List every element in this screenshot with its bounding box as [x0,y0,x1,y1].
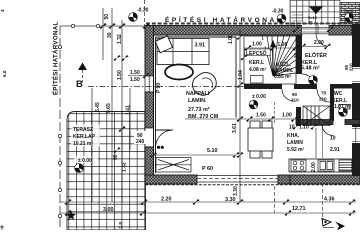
star symbol terrace [66,211,76,220]
stairs landing box [251,76,264,84]
svg-text:LÉPCSŐ: LÉPCSŐ [246,49,267,57]
svg-text:6.45: 6.45 [95,102,101,112]
svg-text:1.41: 1.41 [126,105,132,115]
svg-text:4: 4 [0,9,5,12]
WC benchmark [339,108,348,117]
svg-text:10: 10 [293,53,298,58]
WC left wall [330,84,334,121]
stairs arrow [272,46,274,76]
svg-text:-0.30: -0.30 [137,8,149,14]
north arrow [322,219,331,227]
room label TERASZ backing [71,125,100,147]
dim labels rotated left [95,14,132,172]
left exterior wall middle [145,92,154,128]
building bottom edge line [145,184,360,186]
room label NAPPALI [186,91,219,120]
window P90 [145,76,154,92]
right exterior wall [352,24,360,176]
bottom dim line 1 [60,201,356,203]
svg-text:3.61: 3.61 [232,123,238,133]
armchair tilted [155,36,172,53]
svg-text:1.04: 1.04 [238,70,244,80]
svg-text:1.08: 1.08 [278,42,288,48]
left edge fragments [0,9,7,77]
neighbour brick wall top right [340,3,360,25]
svg-text:-0.30: -0.30 [272,9,284,15]
svg-text:KÖZL.: KÖZL. [276,61,292,68]
svg-text:240: 240 [136,139,145,145]
plot boundary line horizontal with circles [60,24,146,27]
terrace door swing [156,130,174,148]
door dim 75/210 WC [319,91,327,102]
stairs dim label backing [250,40,265,47]
svg-text:50: 50 [104,14,110,20]
svg-text:1.00: 1.00 [252,42,262,48]
svg-text:27.73 m²: 27.73 m² [188,107,210,113]
svg-text:5.10: 5.10 [207,148,218,154]
stairs dim line [244,47,296,49]
section arrow B [78,63,87,71]
window dim 1.50/1.50 [130,70,140,83]
svg-text:LAMIN: LAMIN [287,140,303,146]
vertical dim line living right [239,30,241,202]
svg-text:B: B [76,79,83,90]
svg-text:210: 210 [349,63,354,71]
svg-text:4.08 m²: 4.08 m² [249,67,267,73]
radiator under P60 [156,158,191,173]
dim line 5.10 [153,154,236,156]
svg-text:90: 90 [113,154,119,160]
svg-text:-0 %: -0 % [344,9,353,14]
bottom window band P60 [197,176,278,183]
svg-text:3.91: 3.91 [195,43,206,49]
living room interior outline [154,35,297,176]
svg-text:1.32: 1.32 [122,162,128,172]
dining kitchen wall [296,107,301,126]
dining table [248,121,273,158]
rotated dims right of living [228,34,244,133]
svg-text:ÉPÍTÉSI HATÁRVONAL: ÉPÍTÉSI HATÁRVONAL [52,21,60,95]
top exterior wall [145,26,352,36]
attic ladder [303,106,330,126]
svg-text:210: 210 [319,97,327,102]
bottom dim labels [103,197,335,214]
building boundary dashed line top [146,22,360,24]
bottom dim line 2 [60,212,356,214]
svg-text:0.85 m²: 0.85 m² [274,74,292,80]
svg-text:6,0: 6,0 [2,70,7,77]
svg-text:± 0.00: ± 0.00 [78,158,92,164]
entry benchmark [309,76,318,85]
left exterior wall lower [145,147,154,184]
room label TERASZ [73,127,96,147]
svg-text:NAPPALI: NAPPALI [186,91,210,97]
svg-text:5.65: 5.65 [106,103,112,113]
svg-text:1.50: 1.50 [130,70,140,76]
front door opening [302,25,329,36]
svg-text:3.30: 3.30 [233,186,239,196]
svg-text:1.50: 1.50 [117,70,123,80]
top right benchmark [345,13,354,22]
interior wall corridor horizontal [244,84,352,89]
svg-text:1.00: 1.00 [282,113,292,119]
dining benchmark [249,100,258,109]
svg-text:4.36: 4.36 [324,197,335,203]
room label KONYHA [287,133,305,153]
dim ticks top [99,23,106,29]
svg-text:± 0.00: ± 0.00 [252,94,266,100]
svg-text:3.00: 3.00 [103,207,114,213]
top-left benchmark [129,13,138,22]
door dim 90/210 right [344,63,354,71]
porch step lines [292,12,303,21]
svg-text:210: 210 [291,98,299,103]
svg-text:1.50: 1.50 [256,113,266,119]
WC door swing [317,89,330,102]
svg-text:10.21 m²: 10.21 m² [73,141,93,147]
svg-text:KHA.: KHA. [287,133,300,139]
svg-text:1.10: 1.10 [299,125,309,131]
svg-text:2.00: 2.00 [311,162,317,172]
svg-text:1.00: 1.00 [228,34,234,44]
entrance arrow [309,7,323,15]
svg-text:1.07 m²: 1.07 m² [334,104,352,110]
room label ELŐTÉR [301,51,327,72]
sofa [157,39,209,65]
svg-text:ELŐTÉR: ELŐTÉR [305,51,327,59]
svg-text:5.92 m²: 5.92 m² [287,147,305,153]
svg-text:90: 90 [292,92,298,97]
section line B [88,86,244,88]
sink [318,160,334,171]
room label KÖZL [274,61,294,80]
bottom wall pier [278,175,290,184]
right wall window gap [352,127,360,143]
front door swing [316,34,328,46]
terrace benchmark [75,164,84,173]
door dim 90/210 közl [291,92,299,103]
svg-text:75: 75 [321,91,327,96]
svg-text:1.32: 1.32 [117,34,123,44]
svg-text:1.50: 1.50 [130,77,140,83]
svg-text:2.8: 2.8 [118,222,123,229]
fridge [339,160,352,171]
svg-text:KER.L: KER.L [249,60,264,66]
svg-text:ÉPÍTÉSI HATÁRVONAL: ÉPÍTÉSI HATÁRVONAL [165,15,283,24]
KÖZL door swing [282,89,294,101]
bottom wall living room segment [145,175,197,184]
bottom wall kitchen segment [290,175,360,184]
left exterior wall upper [145,26,154,77]
stairs tread box [245,49,271,56]
svg-text:12.71: 12.71 [292,206,306,212]
svg-text:5.48 m²: 5.48 m² [301,66,320,72]
kitchen door swing [322,125,333,136]
terrace tiled floor [67,112,146,231]
top mid benchmark [277,14,286,23]
coffee table [165,65,193,80]
svg-text:10: 10 [330,136,336,142]
svg-text:WC: WC [334,91,343,97]
terrace door dim 90/240 [134,131,151,144]
dim chain top vertical lines [92,0,145,202]
svg-text:P 90: P 90 [156,83,162,93]
round chair [193,73,217,96]
svg-text:P 60: P 60 [202,166,213,172]
interior wall stairs/entry [296,35,302,74]
svg-text:30: 30 [107,32,113,38]
door ELŐTÉR to corridor [302,74,314,86]
room label LÉPCSŐ [246,49,267,73]
svg-text:2.91: 2.91 [330,147,340,153]
stairs [244,36,296,84]
plot boundary line vertical with circles [58,26,61,230]
svg-text:LAMIN.: LAMIN. [188,98,207,104]
WC toilet [339,105,350,110]
svg-text:2.00: 2.00 [314,40,324,46]
kitchen counter [289,159,352,172]
right wall door gap [352,67,360,83]
stove [291,160,306,171]
dashed extension line bottom right [322,183,324,222]
svg-text:TERASZ: TERASZ [73,127,93,133]
svg-text:3.30: 3.30 [225,197,236,203]
svg-text:2.20: 2.20 [161,197,172,203]
terrace door opening [145,128,154,147]
kitchen top wall [296,120,360,125]
room label WC [332,91,352,110]
entrance porch tiles [290,0,340,26]
